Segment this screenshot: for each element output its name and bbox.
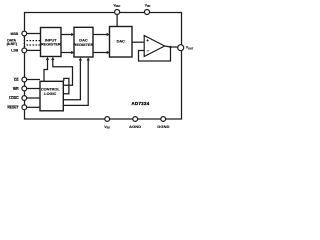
svg-text:REGISTER: REGISTER <box>41 42 61 47</box>
svg-text:CS: CS <box>14 78 19 82</box>
svg-text:+: + <box>146 38 149 43</box>
svg-text:LSB: LSB <box>11 49 18 53</box>
svg-text:LDAC: LDAC <box>9 96 19 100</box>
svg-text:DAC: DAC <box>117 38 125 43</box>
svg-text:(8-BIT): (8-BIT) <box>7 42 17 46</box>
svg-text:−: − <box>147 48 150 53</box>
svg-text:MSB: MSB <box>11 32 19 36</box>
svg-text:AGND: AGND <box>129 124 141 129</box>
svg-text:DGND: DGND <box>157 124 169 129</box>
svg-text:RESET: RESET <box>7 106 19 110</box>
svg-text:WR: WR <box>13 87 19 91</box>
svg-text:AD7224: AD7224 <box>132 101 150 106</box>
svg-text:LOGIC: LOGIC <box>44 92 56 96</box>
svg-text:REGISTER: REGISTER <box>74 42 94 47</box>
